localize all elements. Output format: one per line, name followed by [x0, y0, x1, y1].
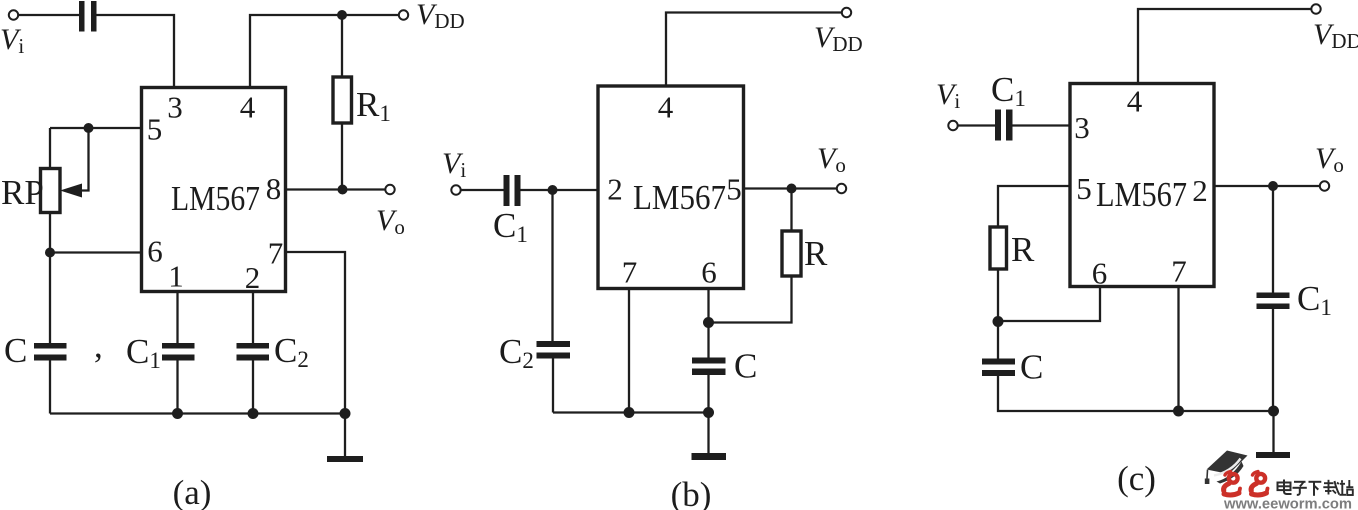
- wire junction to C (c): [997, 322, 999, 359]
- wire C1 to rail (a): [176, 361, 178, 414]
- svg-text:7: 7: [1171, 254, 1187, 289]
- svg-text:6: 6: [701, 255, 717, 290]
- wire wiper (a): [80, 128, 89, 191]
- capacitor C1 (a): [162, 343, 195, 349]
- terminal Vo (b): [837, 184, 846, 193]
- wire C to rail (c): [998, 376, 1274, 411]
- svg-text:Vo: Vo: [1315, 142, 1344, 177]
- capacitor C2 (b): [537, 341, 571, 347]
- svg-text:C1: C1: [493, 206, 528, 247]
- wire pin2 out (c): [1214, 185, 1319, 187]
- wire C to rail (a): [49, 361, 51, 414]
- svg-text:C1: C1: [1297, 279, 1332, 320]
- arrowhead wiper RP: [60, 184, 82, 198]
- wire pin2 to C2 (a): [252, 292, 254, 344]
- junction pin6 (a): [45, 248, 55, 258]
- junction pin6 (b): [703, 317, 714, 328]
- junction ground (c): [1268, 406, 1279, 417]
- watermark text xia: [1309, 482, 1322, 496]
- wire R down (c): [997, 269, 999, 322]
- junction pin5 wiper (a): [84, 123, 94, 133]
- capacitor input coupling (a): [79, 1, 85, 32]
- svg-text:(a): (a): [173, 473, 212, 510]
- op-amp U3 LM567 (c): [1070, 84, 1214, 287]
- op-amp U2 LM567 (b): [598, 86, 744, 289]
- wire pin6 (c): [998, 287, 1100, 322]
- wire cap to pin3 (a): [97, 15, 175, 88]
- capacitor C1 (c): [995, 110, 1001, 141]
- wire R1 to pin8 (a): [341, 123, 343, 190]
- wire pin8 out (a): [286, 188, 386, 190]
- capacitor C1 (b): [504, 175, 510, 206]
- wire pin7 down (b): [628, 289, 630, 413]
- junction pin5 (b): [787, 184, 797, 194]
- wire pin5 to RP (a): [49, 128, 51, 169]
- svg-text:VDD: VDD: [416, 0, 465, 33]
- svg-text:7: 7: [268, 236, 284, 271]
- svg-text:Vi: Vi: [936, 78, 960, 113]
- capacitor C1 output (c): [1257, 293, 1290, 299]
- capacitor C (a): [34, 343, 67, 349]
- terminal VDD (c): [1311, 4, 1320, 13]
- watermark chong1 red worm char: [1224, 472, 1240, 496]
- svg-text:6: 6: [1092, 256, 1108, 291]
- junction C2 rail (a): [248, 408, 259, 419]
- svg-text:C2: C2: [499, 332, 534, 373]
- svg-text:(b): (b): [671, 475, 712, 510]
- svg-text:R: R: [804, 234, 828, 273]
- svg-text:C: C: [4, 331, 27, 370]
- svg-text:Vo: Vo: [817, 142, 846, 177]
- wire C1 to pin3 (c): [1013, 124, 1071, 126]
- junction input (b): [548, 185, 558, 195]
- potentiometer RP: [41, 169, 61, 213]
- svg-text:,: ,: [94, 326, 103, 365]
- svg-text:LM567: LM567: [1096, 175, 1187, 214]
- svg-text:2: 2: [245, 260, 261, 295]
- svg-text:2: 2: [1192, 173, 1208, 208]
- capacitor C (b): [692, 358, 726, 364]
- wire pin5 out (a): [50, 127, 142, 129]
- svg-text:www.eeworm.com: www.eeworm.com: [1223, 495, 1352, 510]
- wire pin4 to VDD (b): [666, 13, 841, 87]
- wire R to pin6 junction (b): [709, 276, 792, 323]
- wire pin7 down (c): [1177, 287, 1179, 412]
- watermark chong2 red worm char: [1251, 472, 1267, 496]
- watermark cap crescent: [1217, 462, 1244, 484]
- wire pin6 to C (b): [707, 323, 709, 358]
- op-amp U1 LM567 (a): [142, 88, 286, 292]
- svg-text:R: R: [1011, 230, 1035, 269]
- svg-text:C2: C2: [274, 331, 309, 372]
- svg-text:4: 4: [658, 90, 674, 125]
- terminal VDD (b): [842, 8, 851, 17]
- wire pin6 to cap C (a): [49, 253, 51, 344]
- svg-text:(c): (c): [1117, 459, 1156, 498]
- wire pin5 to R (c): [998, 186, 1070, 227]
- svg-text:VDD: VDD: [1313, 18, 1358, 53]
- capacitor C2 (a): [237, 343, 270, 349]
- junction C1 rail (a): [172, 408, 183, 419]
- wire pin4 to VDD (a): [250, 15, 398, 88]
- svg-text:2: 2: [607, 172, 623, 207]
- svg-text:Vi: Vi: [0, 23, 24, 58]
- watermark tassel: [1206, 470, 1209, 479]
- terminal Vo (c): [1320, 181, 1329, 190]
- watermark graduation cap board: [1207, 451, 1248, 475]
- svg-text:VDD: VDD: [814, 21, 863, 56]
- svg-text:Vo: Vo: [376, 204, 405, 239]
- watermark text dian: [1278, 480, 1292, 495]
- wire input (c): [958, 124, 995, 126]
- svg-text:1: 1: [168, 259, 184, 294]
- wire pin4 to VDD (c): [1138, 9, 1311, 84]
- junction pin2 (c): [1268, 181, 1278, 191]
- svg-text:3: 3: [1074, 110, 1090, 145]
- svg-text:4: 4: [1127, 84, 1143, 119]
- svg-text:Vi: Vi: [442, 147, 466, 182]
- svg-text:5: 5: [726, 172, 742, 207]
- junction R C (c): [993, 316, 1004, 327]
- terminal Vo (a): [385, 185, 394, 194]
- svg-text:3: 3: [167, 90, 183, 125]
- svg-text:LM567: LM567: [633, 178, 726, 217]
- wire input (b): [461, 189, 504, 191]
- watermark text zi: [1293, 482, 1307, 495]
- wire pin1 to C1 (a): [176, 292, 178, 344]
- junction pin7 rail (b): [624, 407, 635, 418]
- wire pin6 out (a): [50, 251, 142, 253]
- junction ground (a): [340, 408, 351, 419]
- wire pin6 down (b): [707, 289, 709, 323]
- watermark cap white stripe: [1214, 459, 1241, 476]
- wire C1 to rail (c): [1272, 309, 1274, 411]
- ground (b): [707, 413, 709, 454]
- wire VDD to R1 (a): [341, 15, 343, 77]
- junction pin8 (a): [338, 185, 348, 195]
- junction rail right (b): [703, 407, 714, 418]
- svg-text:5: 5: [147, 112, 163, 147]
- resistor R (c): [990, 227, 1007, 269]
- wire pin5 to R (b): [790, 189, 792, 232]
- resistor R1: [333, 77, 352, 123]
- svg-text:6: 6: [147, 234, 163, 269]
- watermark text zai: [1323, 480, 1339, 495]
- terminal Vi (a): [9, 10, 18, 19]
- svg-text:RP: RP: [1, 173, 44, 212]
- terminal VDD (a): [399, 10, 408, 19]
- svg-text:5: 5: [1076, 171, 1092, 206]
- wire C2 to rail (a): [252, 361, 254, 414]
- svg-text:R1: R1: [356, 85, 391, 126]
- junction pin7 rail (c): [1173, 406, 1184, 417]
- svg-text:8: 8: [266, 171, 282, 206]
- wire pin5 out (b): [744, 187, 837, 189]
- wire C1 to pin2 (b): [521, 189, 599, 191]
- wire C2 to rail (b): [552, 359, 554, 413]
- junction VDD (a): [337, 10, 347, 20]
- terminal Vi (c): [948, 121, 957, 130]
- wire input (a): [19, 14, 80, 16]
- svg-text:7: 7: [622, 255, 638, 290]
- ground (a): [344, 414, 346, 457]
- svg-text:C: C: [1020, 348, 1043, 387]
- svg-text:C: C: [734, 347, 757, 386]
- capacitor C (c): [982, 359, 1015, 365]
- bottom rail (b): [553, 411, 709, 413]
- svg-text:C1: C1: [991, 70, 1026, 111]
- wire C2 down (b): [551, 190, 553, 341]
- svg-text:LM567: LM567: [171, 179, 260, 218]
- svg-text:4: 4: [240, 90, 256, 125]
- wire C to rail (b): [707, 375, 709, 413]
- terminal Vi (b): [451, 185, 460, 194]
- ground (c): [1272, 411, 1274, 452]
- watermark text zhan: [1339, 480, 1353, 495]
- bottom rail (a): [50, 412, 345, 414]
- wire pin7 to ground (a): [286, 252, 346, 414]
- wire RP to pin6 (a): [49, 213, 51, 253]
- svg-text:C1: C1: [126, 332, 161, 373]
- resistor R (b): [782, 231, 801, 276]
- wire pin2 to C1 (c): [1272, 186, 1274, 293]
